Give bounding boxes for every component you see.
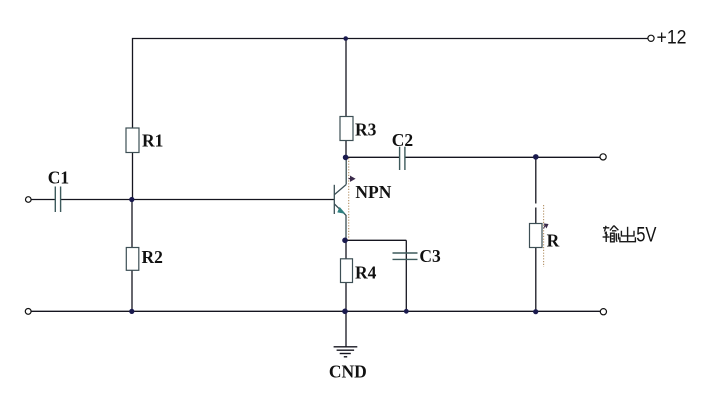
svg-text:R1: R1	[142, 130, 163, 150]
svg-text:C3: C3	[419, 246, 441, 266]
svg-text:CND: CND	[329, 362, 367, 382]
svg-text:NPN: NPN	[355, 182, 391, 202]
svg-text:+12: +12	[657, 27, 687, 49]
svg-text:R4: R4	[355, 263, 377, 283]
svg-text:C2: C2	[392, 130, 413, 150]
svg-text:5V: 5V	[636, 223, 657, 247]
svg-text:R: R	[547, 231, 560, 251]
svg-text:R3: R3	[355, 120, 377, 140]
svg-text:R2: R2	[142, 247, 163, 267]
svg-text:C1: C1	[48, 167, 69, 187]
